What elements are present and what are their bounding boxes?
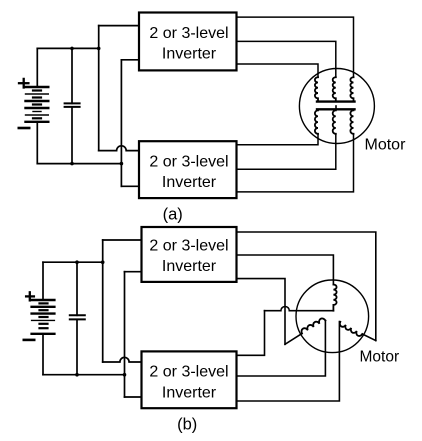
svg-text:Inverter: Inverter (162, 258, 217, 275)
wire inverter U2 input 2 (121, 185, 139, 187)
battery B2 (32, 262, 55, 375)
wire U2 output 1 (237, 134, 319, 145)
wire negative bus (a) (37, 163, 121, 165)
motor M2 phase B coil (302, 318, 326, 333)
motor M1 winding set 1 coil phase 1 (315, 77, 318, 100)
wire U1 output 3 (237, 64, 319, 77)
wire U2 output 3 (237, 134, 354, 192)
svg-text:Inverter: Inverter (162, 46, 217, 63)
battery B2 plus terminal label (26, 292, 34, 300)
wire phase C outer diagonal (362, 334, 376, 341)
motor M1 winding set 2 coil phase 3 (350, 110, 353, 133)
wire DC rail 2 vertical (b) (124, 272, 126, 397)
svg-text:Motor: Motor (360, 349, 400, 366)
wire inverter U2 input 1 with hop over rail 2 (99, 146, 139, 151)
junction negative bus to rail node (b) (123, 373, 127, 377)
wire U1 output 2 (237, 41, 336, 77)
wire negative bus (b) (43, 374, 125, 376)
motor M1 stator circle (299, 69, 374, 144)
wire inverter U1 input 1 (99, 25, 139, 27)
svg-text:(a): (a) (163, 206, 183, 224)
motor M1 wye bar winding set 1 (317, 100, 355, 102)
wire phase A to U4 output 1 (237, 311, 265, 356)
motor M1 winding set 2 coil phase 2 (333, 110, 336, 133)
inverter U4 (142, 351, 237, 408)
motor M1 winding set 1 coil phase 2 (333, 77, 336, 100)
junction capacitor C1 bottom node (70, 162, 74, 166)
motor M1 neutral tick (335, 106, 337, 109)
capacitor C2 (70, 262, 85, 375)
wire inverter U3 input 2 (125, 271, 142, 273)
battery B1 (26, 48, 49, 163)
wire positive bus (a) (37, 47, 98, 49)
svg-text:2 or 3-level: 2 or 3-level (149, 154, 228, 171)
capacitor C1 (65, 48, 80, 163)
wire inverter U4 input 2 (125, 396, 142, 398)
wire phase A return with hop over U3 output 3 (265, 307, 334, 311)
inverter U3 (142, 227, 237, 282)
svg-text:2 or 3-level: 2 or 3-level (149, 364, 228, 381)
battery B1 plus terminal label (19, 79, 28, 88)
junction positive bus to rail node (b) (101, 260, 105, 264)
svg-text:Inverter: Inverter (162, 174, 217, 191)
svg-text:Motor: Motor (365, 137, 407, 154)
battery B1 minus terminal label (19, 127, 29, 130)
svg-text:(b): (b) (177, 416, 197, 434)
junction capacitor C2 bottom node (75, 373, 79, 377)
svg-text:Inverter: Inverter (162, 385, 217, 402)
wire U1 output 1 (237, 17, 354, 77)
svg-text:2 or 3-level: 2 or 3-level (149, 238, 228, 255)
svg-text:2 or 3-level: 2 or 3-level (149, 25, 228, 42)
wire phase B to U4 output 2 (237, 321, 326, 377)
junction negative bus to rail node (a) (120, 162, 124, 166)
motor M1 winding set 2 coil phase 1 (315, 110, 318, 133)
motor M1 wye bar winding set 2 (317, 108, 355, 110)
inverter U1 (139, 13, 237, 71)
wire phase C inner lead to U4 output 3 (237, 322, 340, 402)
junction positive bus to rail node (a) (97, 47, 101, 51)
wire inverter U1 input 2 (121, 59, 139, 61)
motor M2 phase C coil (340, 322, 362, 336)
battery B2 minus terminal label (24, 339, 34, 342)
wire DC rail 1 vertical (b) (102, 240, 104, 362)
motor M2 phase A coil (333, 285, 336, 311)
wire inverter U3 input 1 (103, 239, 142, 241)
wire positive bus (b) (43, 261, 103, 263)
wire U3 output 3 to phase B outer end (237, 279, 286, 345)
wire U3 output 1 to phase C outer end (237, 232, 376, 341)
wire U2 output 2 (237, 134, 336, 169)
wire DC rail 2 vertical (a) (120, 60, 122, 187)
junction capacitor C1 top node (70, 47, 74, 51)
wire inverter U4 input 1 with hop over rail 2 (103, 357, 142, 362)
wire U3 output 2 to phase A top (237, 255, 334, 285)
motor M2 stator circle (296, 280, 369, 353)
wire phase B outer diagonal lead (285, 334, 302, 345)
junction capacitor C2 top node (75, 260, 79, 264)
inverter U2 (139, 141, 237, 198)
motor M1 winding set 1 coil phase 3 (350, 77, 353, 100)
wire DC rail 1 vertical (a) (98, 26, 100, 151)
